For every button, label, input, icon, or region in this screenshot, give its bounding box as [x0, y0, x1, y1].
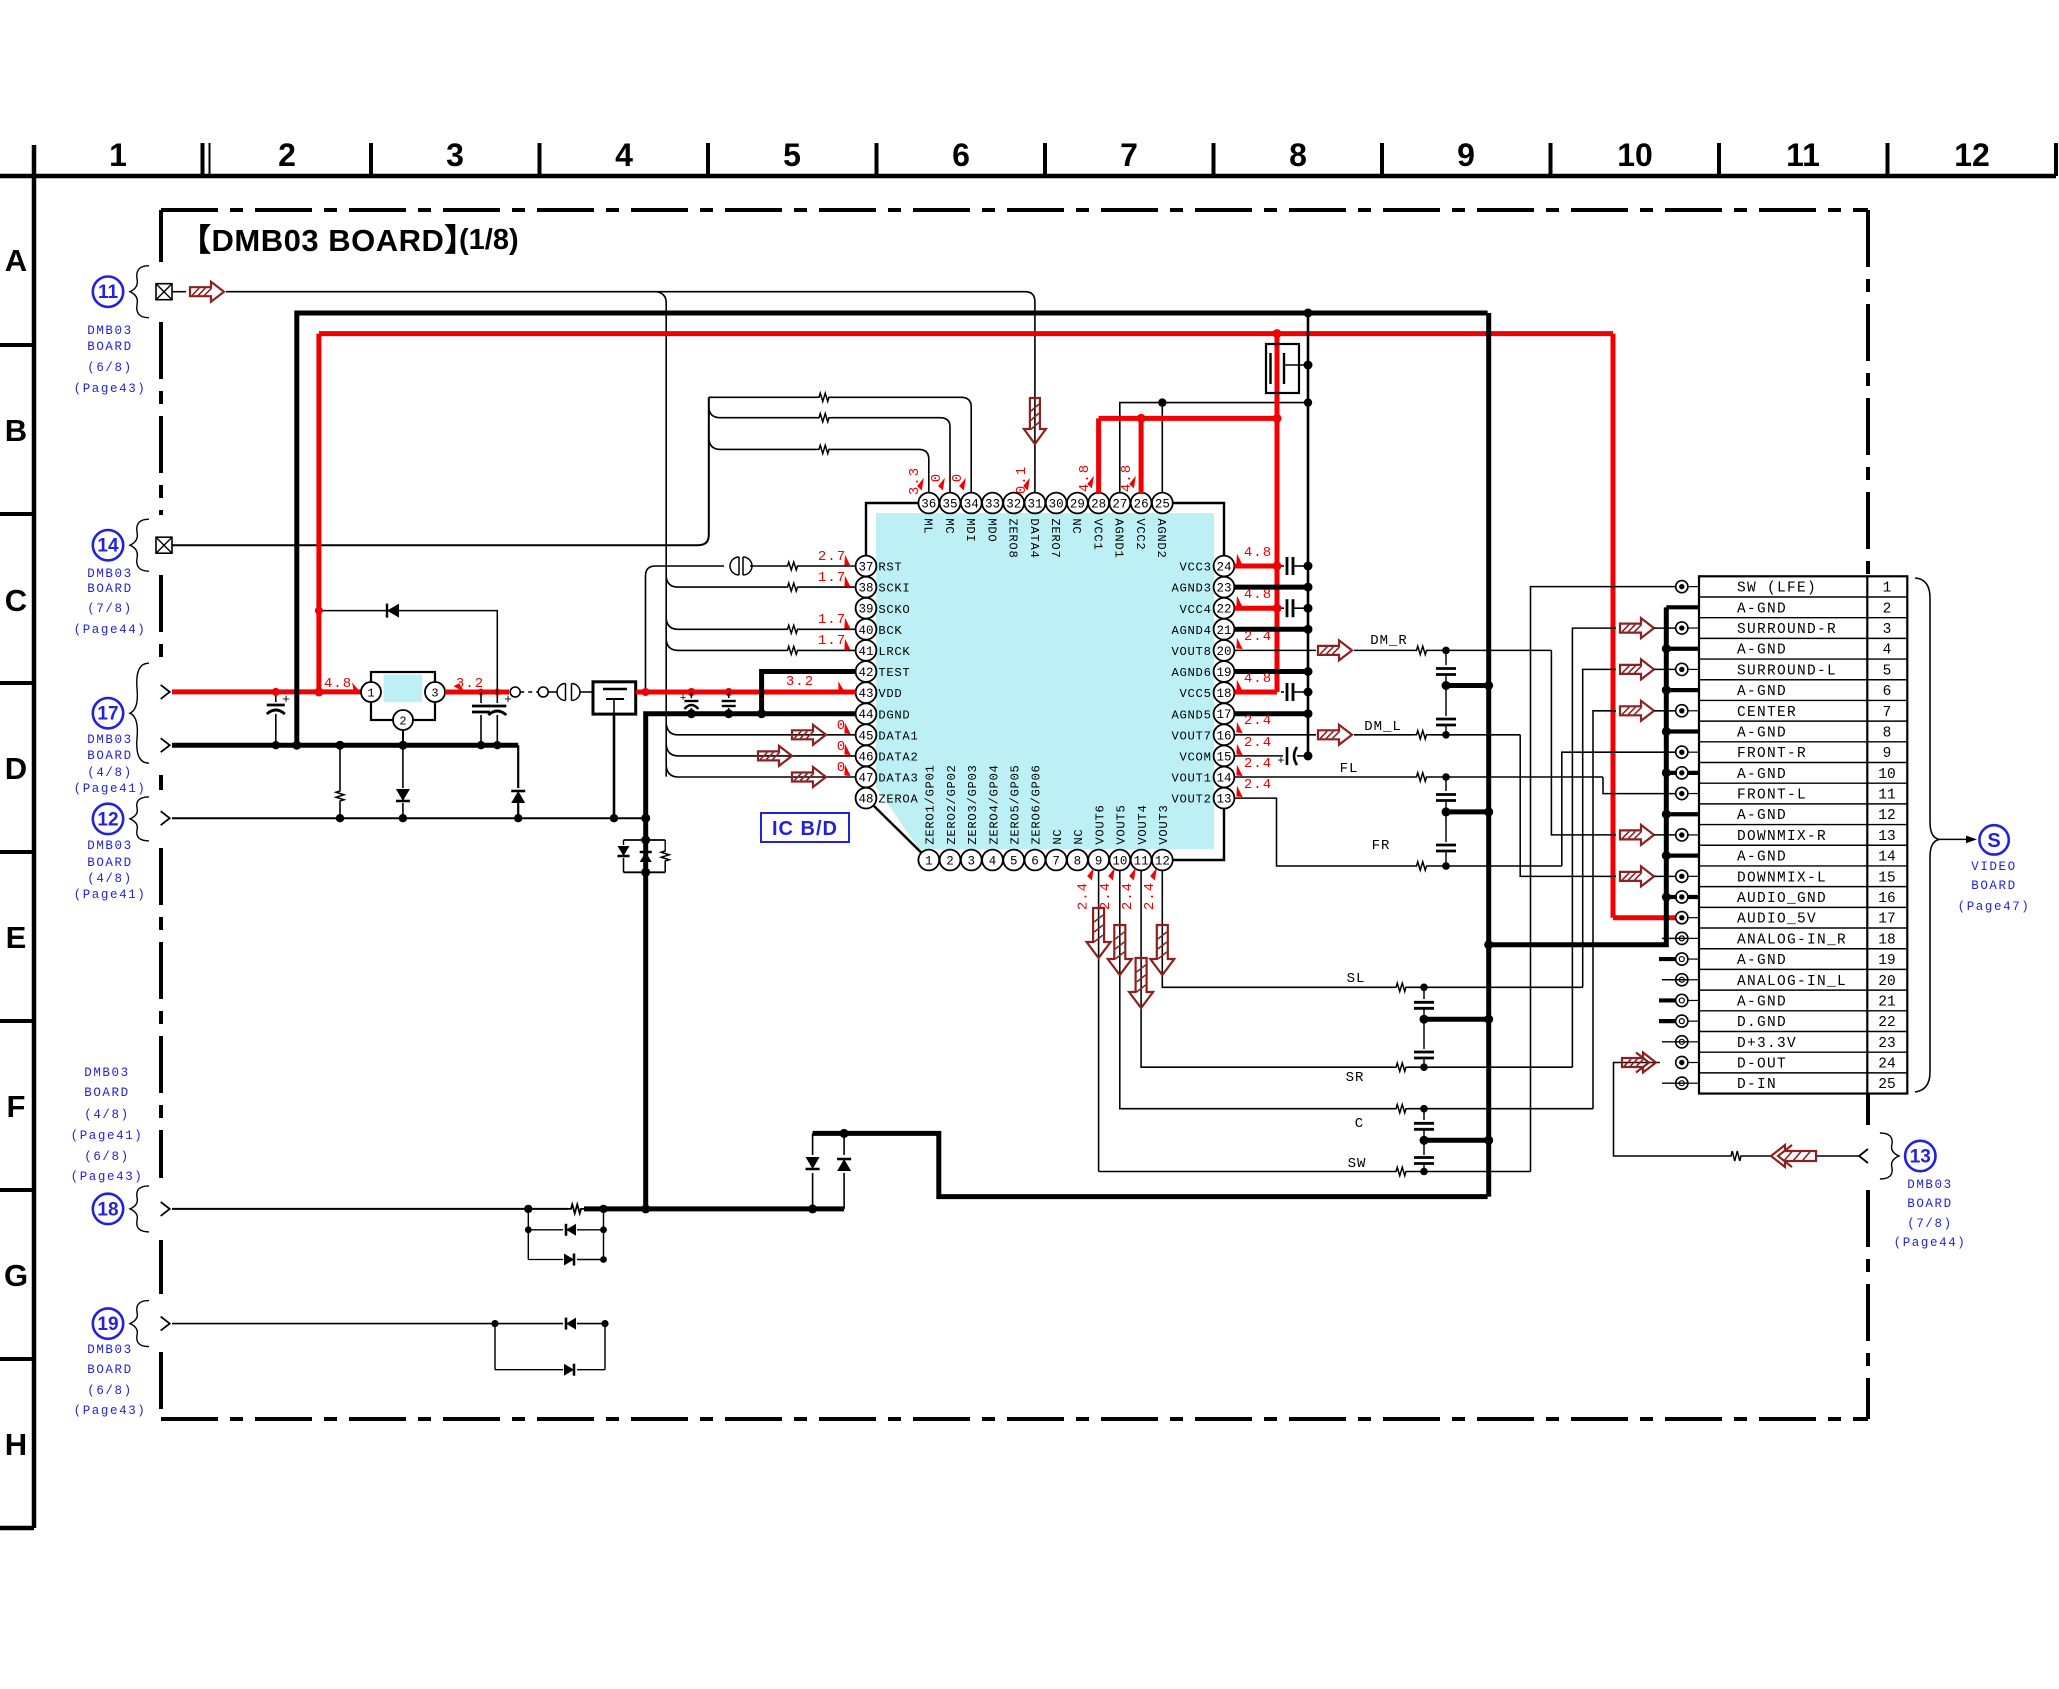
svg-text:AUDIO_5V: AUDIO_5V — [1737, 912, 1817, 928]
svg-text:VOUT2: VOUT2 — [1172, 793, 1212, 807]
resistor C — [1394, 1105, 1408, 1113]
svg-text:23: 23 — [1216, 582, 1231, 596]
svg-text:19: 19 — [1216, 666, 1231, 680]
decoupling capacitor at VDD — [722, 692, 736, 718]
svg-text:3: 3 — [968, 855, 976, 869]
svg-text:21: 21 — [1216, 624, 1231, 638]
IC pin 44 (DGND) — [856, 703, 911, 724]
svg-text:CENTER: CENTER — [1737, 705, 1797, 721]
svg-text:BOARD: BOARD — [87, 1363, 133, 1377]
svg-text:FR: FR — [1372, 838, 1391, 854]
svg-text:2.4: 2.4 — [1076, 882, 1092, 910]
connector pin 18 (ANALOG-IN_R) — [1676, 932, 1896, 948]
svg-text:+: + — [680, 693, 687, 705]
wire battery to ground via 12 line — [613, 714, 616, 817]
svg-text:9: 9 — [1883, 746, 1892, 762]
diode 17bus to 12 line (down) — [396, 745, 410, 818]
svg-text:DATA2: DATA2 — [878, 751, 918, 765]
svg-text:2.4: 2.4 — [1244, 629, 1272, 645]
svg-text:NC: NC — [1069, 518, 1083, 534]
wire bead to resistor — [750, 565, 787, 567]
connector pin 22 (D.GND) — [1676, 1015, 1896, 1031]
arrow into DATA1 — [792, 725, 826, 745]
IC pin 39 (SCKO) — [856, 598, 911, 619]
wire VOUT4 pin11 to SR — [1141, 870, 1394, 1067]
IC pin 8 (NC) — [1067, 829, 1088, 871]
svg-text:37: 37 — [858, 561, 873, 575]
resistor on LRCK line — [787, 646, 799, 654]
svg-text:ZERO8: ZERO8 — [1006, 518, 1020, 558]
capacitor at regulator output — [472, 692, 490, 749]
svg-text:SW: SW — [1348, 1156, 1367, 1172]
connector pin 7 (CENTER) — [1676, 705, 1892, 721]
svg-text:17: 17 — [97, 704, 118, 725]
red label 2.4 pin13 — [1233, 777, 1272, 799]
connector pin 14 (A-GND) — [1737, 850, 1896, 866]
svg-text:VCC3: VCC3 — [1180, 561, 1212, 575]
wire row to pin35 via resistor — [709, 408, 950, 493]
connector entry 17 (power from DMB03 BOARD 4/8) — [93, 663, 170, 763]
svg-text:9: 9 — [1095, 855, 1103, 869]
connector pin 24 (D-OUT) — [1676, 1056, 1896, 1072]
svg-text:(Page44): (Page44) — [74, 623, 147, 637]
arrow into row3 — [1620, 618, 1654, 638]
connector entry 14 (from DMB03 BOARD 7/8) — [93, 519, 172, 571]
svg-text:DMB03: DMB03 — [87, 324, 133, 338]
output filter caps FL/FR pair — [1436, 777, 1493, 870]
svg-text:40: 40 — [858, 624, 873, 638]
svg-text:12: 12 — [1155, 855, 1170, 869]
svg-text:DATA1: DATA1 — [878, 729, 918, 743]
IC pin 43 (VDD) — [856, 682, 903, 703]
svg-text:38: 38 — [858, 582, 873, 596]
connector pin 13 (DOWNMIX-R) — [1676, 829, 1896, 845]
wire VCOM pin15 to cap — [1234, 747, 1312, 768]
inline connector pair on VDD line — [557, 684, 593, 701]
svg-text:FRONT-R: FRONT-R — [1737, 746, 1807, 762]
svg-text:DOWNMIX-R: DOWNMIX-R — [1737, 829, 1827, 845]
wire 19 line — [172, 1320, 609, 1327]
output filter caps C/SW pair — [1414, 1109, 1493, 1172]
svg-text:13: 13 — [1216, 793, 1231, 807]
resistor SW — [1394, 1167, 1408, 1175]
wire regulator pin2 to ground bus — [402, 730, 404, 745]
wire SCKI resistor to pin38 — [799, 586, 856, 588]
svg-text:DMB03: DMB03 — [87, 1343, 133, 1357]
resistor FR — [1413, 862, 1430, 870]
svg-text:20: 20 — [1878, 974, 1895, 990]
svg-text:8: 8 — [1289, 137, 1307, 173]
arrow on DM_R — [1318, 640, 1352, 660]
svg-text:3: 3 — [1883, 622, 1892, 638]
svg-text:2.4: 2.4 — [1244, 713, 1272, 729]
svg-text:A-GND: A-GND — [1737, 850, 1787, 866]
svg-text:1.7: 1.7 — [818, 570, 846, 586]
svg-text:+: + — [282, 692, 290, 707]
svg-text:ML: ML — [921, 518, 935, 534]
svg-text:AGND1: AGND1 — [1112, 518, 1126, 558]
svg-text:12: 12 — [1878, 808, 1895, 824]
wire DM_R to nest — [1430, 647, 1551, 655]
svg-text:G: G — [4, 1258, 28, 1293]
dual diode pack on 18 bus — [806, 1129, 852, 1209]
svg-text:35: 35 — [943, 498, 958, 512]
red label 2.4 pin16 — [1233, 713, 1272, 735]
svg-text:BOARD: BOARD — [1907, 1197, 1953, 1211]
IC pin 36 (ML) — [918, 493, 939, 535]
wire SW line — [1099, 1171, 1394, 1173]
red label 3.2 at regulator pin3 — [453, 676, 484, 694]
svg-text:D.GND: D.GND — [1737, 1015, 1787, 1031]
svg-text:FRONT-L: FRONT-L — [1737, 788, 1807, 804]
svg-text:A-GND: A-GND — [1737, 953, 1787, 969]
svg-text:1.7: 1.7 — [818, 633, 846, 649]
svg-text:5: 5 — [1883, 663, 1892, 679]
svg-text:2.4: 2.4 — [1244, 735, 1272, 751]
svg-text:2: 2 — [278, 137, 296, 173]
svg-text:(4/8): (4/8) — [84, 1108, 130, 1122]
svg-text:(Page41): (Page41) — [74, 782, 147, 796]
backup diode across regulator — [315, 607, 497, 692]
svg-text:C: C — [5, 583, 27, 618]
svg-text:12: 12 — [97, 809, 118, 830]
label DMB03 BOARD (6/8) Page43 — [74, 324, 147, 396]
wire SR to nest — [1408, 1063, 1572, 1071]
capacitor C (input) at x276 — [267, 688, 290, 750]
wire VOUT2 FR — [1234, 798, 1413, 866]
connector pin 21 (A-GND) — [1676, 994, 1896, 1010]
red label 4.8 pin24 — [1233, 545, 1272, 567]
svg-text:5: 5 — [1010, 855, 1018, 869]
AGND return path to trunk — [813, 1133, 1488, 1196]
svg-text:ZERO7: ZERO7 — [1048, 518, 1062, 558]
svg-text:(Page43): (Page43) — [71, 1170, 144, 1184]
svg-text:MC: MC — [942, 518, 956, 534]
svg-text:A-GND: A-GND — [1737, 601, 1787, 617]
svg-text:SCKO: SCKO — [878, 603, 910, 617]
svg-text:1.7: 1.7 — [818, 612, 846, 628]
connector entry 19 — [93, 1301, 170, 1347]
svg-text:A-GND: A-GND — [1737, 684, 1787, 700]
svg-text:34: 34 — [964, 498, 979, 512]
svg-text:(Page44): (Page44) — [1894, 1236, 1967, 1250]
svg-text:A-GND: A-GND — [1737, 725, 1787, 741]
output filter caps DM pair — [1436, 650, 1493, 734]
resistor on SCKI line — [787, 583, 799, 591]
IC pin 42 (TEST) — [856, 661, 911, 682]
resistor on BCK line — [787, 625, 799, 633]
IC pin 24 (VCC3) — [1180, 556, 1235, 577]
IC pin 22 (VCC4) — [1180, 598, 1235, 619]
IC pin 27 (AGND1) — [1109, 493, 1130, 559]
svg-text:25: 25 — [1155, 498, 1170, 512]
connector pin 9 (FRONT-R) — [1676, 746, 1892, 762]
svg-text:RST: RST — [878, 561, 902, 575]
svg-text:ANALOG-IN_R: ANALOG-IN_R — [1737, 932, 1847, 948]
wire branch DATA3 — [666, 766, 855, 777]
svg-text:SL: SL — [1347, 971, 1366, 987]
arrow into row5 — [1620, 659, 1654, 679]
svg-text:DMB03: DMB03 — [87, 839, 133, 853]
clamp diode pair on 18 line — [525, 1209, 607, 1266]
svg-text:45: 45 — [858, 729, 873, 743]
svg-text:BOARD: BOARD — [87, 340, 133, 354]
svg-text:3: 3 — [431, 687, 438, 701]
wire branch LRCK — [666, 640, 786, 650]
svg-text:44: 44 — [858, 708, 873, 722]
svg-text:2.4: 2.4 — [1098, 882, 1114, 910]
filter capacitor in shield box — [1266, 344, 1313, 393]
red labels on left control pins — [818, 549, 854, 778]
svg-text:2.4: 2.4 — [1120, 882, 1136, 910]
svg-text:10: 10 — [1878, 767, 1895, 783]
IC pin 18 (VCC5) — [1180, 682, 1235, 703]
svg-text:42: 42 — [858, 666, 873, 680]
svg-text:AGND3: AGND3 — [1172, 582, 1212, 596]
svg-text:D-IN: D-IN — [1737, 1077, 1777, 1093]
svg-text:D: D — [5, 751, 27, 786]
svg-text:AGND5: AGND5 — [1172, 708, 1212, 722]
wire AGND3 pin23 — [1234, 583, 1312, 592]
svg-text:24: 24 — [1216, 561, 1231, 575]
svg-text:VCOM: VCOM — [1180, 751, 1212, 765]
svg-text:2: 2 — [399, 715, 406, 729]
AGND rail top (pins 25/27) — [1120, 398, 1312, 492]
jumper open circles on VDD line — [510, 687, 557, 697]
IC pin 28 (VCC1) — [1088, 493, 1109, 551]
label DMB03 BOARD (7/8) Page44 at 13 — [1894, 1178, 1967, 1250]
connector pin 8 (A-GND) — [1737, 725, 1891, 741]
svg-text:4.8: 4.8 — [1244, 545, 1272, 561]
resistor SR — [1394, 1063, 1408, 1071]
connector pin 25 (D-IN) — [1676, 1077, 1896, 1093]
svg-text:SW (LFE): SW (LFE) — [1737, 581, 1817, 597]
arrow into row7 — [1620, 701, 1654, 721]
wire from 14 to control bundle — [172, 397, 709, 545]
nest wire SL to row5 — [1583, 669, 1616, 987]
title DMB03 BOARD (1/8) — [180, 223, 519, 258]
svg-text:DMB03: DMB03 — [1907, 1178, 1953, 1192]
svg-text:(4/8): (4/8) — [87, 872, 133, 886]
IC pin 10 (VOUT5) — [1109, 805, 1130, 871]
ground stubs rows 19/21/22 — [1659, 959, 1676, 1021]
resistor FL — [1413, 773, 1430, 781]
svg-text:16: 16 — [1878, 891, 1895, 907]
IC pin 4 (ZERO4/GP04) — [982, 764, 1003, 870]
connector pin 2 (A-GND) — [1737, 601, 1891, 617]
svg-text:14: 14 — [1216, 772, 1231, 786]
svg-text:BOARD: BOARD — [1971, 879, 2017, 893]
connector entry 12 — [93, 797, 170, 841]
svg-text:32: 32 — [1006, 498, 1021, 512]
svg-text:3.2: 3.2 — [786, 674, 814, 690]
connector pin 1 (SW (LFE)) — [1676, 581, 1892, 597]
IC pin 30 (ZERO7) — [1046, 493, 1067, 559]
stubs rows 18/20/23/25 — [1662, 938, 1687, 1083]
svg-text:BCK: BCK — [878, 624, 902, 638]
svg-text:13: 13 — [1910, 1147, 1931, 1168]
wire SW to nest — [1408, 1168, 1531, 1176]
connector pin 15 (DOWNMIX-L) — [1676, 870, 1896, 886]
svg-text:2.4: 2.4 — [1142, 882, 1158, 910]
nest wire FR to row9 — [1562, 752, 1676, 866]
connector exit 13 to DMB03 BOARD 7/8 — [1859, 1133, 1936, 1179]
wire regulator output red — [445, 689, 509, 696]
wire VCC5 pin18 to rail — [1234, 683, 1312, 701]
svg-text:ANALOG-IN_L: ANALOG-IN_L — [1737, 974, 1847, 990]
connector pin 4 (A-GND) — [1737, 643, 1891, 659]
svg-text:12: 12 — [1954, 137, 1990, 173]
arrows down on VOUT6/5/4/3 — [1087, 908, 1175, 1008]
svg-text:H: H — [5, 1427, 27, 1462]
nest wire FL to row11 — [1603, 777, 1676, 794]
resistor DM_L — [1413, 731, 1430, 739]
svg-text:VOUT8: VOUT8 — [1172, 645, 1212, 659]
IC pin 19 (AGND6) — [1172, 661, 1235, 682]
red label 4.8 pin18 — [1233, 671, 1272, 693]
output filter caps SL/SR pair — [1414, 987, 1493, 1067]
wire DM_L to nest — [1430, 731, 1520, 739]
connector pin 6 (A-GND) — [1737, 684, 1891, 700]
svg-text:DGND: DGND — [878, 708, 910, 722]
svg-text:10: 10 — [1112, 855, 1127, 869]
svg-text:TEST: TEST — [878, 666, 910, 680]
IC pin 15 (VCOM) — [1180, 746, 1235, 767]
decoupling capacitor at VDD (electrolytic) — [680, 692, 699, 718]
connector pin 19 (A-GND) — [1676, 953, 1896, 969]
svg-text:VCC1: VCC1 — [1090, 518, 1104, 550]
svg-text:SR: SR — [1346, 1070, 1365, 1086]
svg-text:MDO: MDO — [984, 518, 998, 542]
IC pin 37 (RST) — [856, 556, 903, 577]
clamp diode return on 19 line — [495, 1324, 605, 1376]
svg-text:VOUT3: VOUT3 — [1157, 805, 1171, 845]
diode (reverse) symbol — [387, 604, 399, 618]
svg-text:BOARD: BOARD — [87, 749, 133, 763]
red labels 2.4 at bottom pins — [1076, 868, 1162, 910]
svg-text:+: + — [1277, 754, 1284, 768]
svg-text:48: 48 — [858, 793, 873, 807]
svg-text:18: 18 — [1878, 932, 1895, 948]
svg-text:(7/8): (7/8) — [1907, 1217, 1953, 1231]
svg-text:D+3.3V: D+3.3V — [1737, 1036, 1797, 1052]
IC pin 7 (NC) — [1046, 829, 1067, 871]
svg-text:SURROUND-R: SURROUND-R — [1737, 622, 1837, 638]
wire resistor to pin37 RST — [799, 565, 856, 567]
IC pin 40 (BCK) — [856, 619, 903, 640]
svg-text:8: 8 — [1074, 855, 1082, 869]
red label 4.8 at regulator pin1 — [324, 676, 362, 694]
ferrite bead on RST line — [730, 557, 739, 575]
wire row to pin34 via resistor — [709, 393, 971, 493]
resistor SL — [1394, 983, 1408, 991]
svg-text:【DMB03 BOARD】: 【DMB03 BOARD】 — [180, 223, 476, 258]
wire VOUT3 pin12 to SL — [1162, 870, 1394, 987]
wire bundle 11 branch (SCKI/BCK/LRCK/DATA1-3) — [656, 292, 666, 777]
wire AGND5 pin17 — [1234, 709, 1312, 718]
voltage regulator IC (3-terminal) — [361, 672, 445, 730]
resistor on 18 line — [568, 1204, 584, 1213]
wire branch SCKI — [666, 577, 786, 587]
svg-text:2.7: 2.7 — [818, 549, 846, 565]
IC pin 5 (ZERO5/GP05) — [1003, 764, 1024, 870]
svg-text:7: 7 — [1120, 137, 1138, 173]
svg-text:DMB03: DMB03 — [87, 567, 133, 581]
arrow (double) into D-OUT — [1622, 1053, 1656, 1073]
wire D-OUT return to 13 — [1614, 1063, 1860, 1156]
IC pin 32 (ZERO8) — [1003, 493, 1024, 559]
IC pin 31 (DATA4) — [1025, 493, 1046, 559]
IC pin 6 (ZERO6/GP06) — [1025, 764, 1046, 870]
wire AGND4 pin21 — [1234, 625, 1312, 634]
connector pin 20 (ANALOG-IN_L) — [1676, 974, 1896, 990]
svg-text:VIDEO: VIDEO — [1971, 860, 2017, 874]
connector entry 11 (from DMB03 BOARD 6/8) — [93, 266, 186, 318]
wire from 11 to IC pin31 DATA4 — [226, 292, 1035, 493]
connector pin 16 (AUDIO_GND) — [1676, 891, 1896, 907]
svg-text:18: 18 — [1216, 687, 1231, 701]
svg-text:11: 11 — [1134, 855, 1149, 869]
nest wire DM_R to row13 — [1551, 650, 1616, 835]
svg-text:1: 1 — [367, 687, 374, 701]
A-GND bus at connector — [1484, 607, 1699, 949]
svg-text:21: 21 — [1878, 994, 1895, 1010]
svg-text:3: 3 — [446, 137, 464, 173]
svg-text:SURROUND-L: SURROUND-L — [1737, 663, 1837, 679]
svg-text:23: 23 — [1878, 1036, 1895, 1052]
svg-text:4.8: 4.8 — [1077, 464, 1093, 492]
svg-text:D-OUT: D-OUT — [1737, 1057, 1787, 1073]
capacitor electrolytic at regulator output — [488, 692, 512, 749]
svg-text:(6/8): (6/8) — [84, 1150, 130, 1164]
wire VOUT5 pin10 to C — [1120, 870, 1394, 1108]
svg-text:VOUT1: VOUT1 — [1172, 772, 1212, 786]
IC pin 23 (AGND3) — [1172, 577, 1235, 598]
svg-text:E: E — [6, 920, 27, 955]
svg-text:(1/8): (1/8) — [459, 224, 519, 256]
svg-text:IC B/D: IC B/D — [772, 818, 838, 840]
wire RST pull-up from VDD — [646, 566, 725, 692]
svg-text:BOARD: BOARD — [87, 582, 133, 596]
wire red riser to top rail — [314, 334, 1613, 697]
svg-text:BOARD: BOARD — [87, 856, 133, 870]
red label 2.4 pin15 — [1233, 735, 1272, 757]
IC pin 21 (AGND4) — [1172, 619, 1235, 640]
svg-text:ZERO4/GP04: ZERO4/GP04 — [987, 764, 1001, 844]
svg-text:11: 11 — [1786, 137, 1820, 173]
red label 4.8 pin22 — [1233, 587, 1272, 609]
svg-text:(Page43): (Page43) — [74, 1404, 147, 1418]
svg-text:DATA3: DATA3 — [878, 772, 918, 786]
svg-text:46: 46 — [858, 750, 873, 764]
svg-text:S: S — [1987, 830, 2000, 852]
connector pin 3 (SURROUND-R) — [1676, 622, 1892, 638]
svg-text:19: 19 — [97, 1314, 118, 1335]
wire AGND6 pin19 — [1234, 667, 1312, 676]
AGND vertical x1308 — [1304, 309, 1313, 756]
IC pin 2 (ZERO2/GP02) — [940, 764, 961, 870]
svg-text:20: 20 — [1216, 645, 1231, 659]
svg-text:FL: FL — [1340, 761, 1359, 777]
wire thick AGND riser to top rail — [297, 313, 1488, 745]
IC pin 45 (DATA1) — [856, 724, 919, 745]
wire FL to nest — [1430, 773, 1603, 781]
nest wire C to row7 — [1593, 711, 1616, 1109]
arrow into DATA2 — [758, 746, 792, 766]
svg-text:17: 17 — [1878, 912, 1895, 928]
wire FR to nest — [1430, 862, 1562, 870]
IC pin 1 (ZERO1/GP01) — [918, 764, 939, 870]
